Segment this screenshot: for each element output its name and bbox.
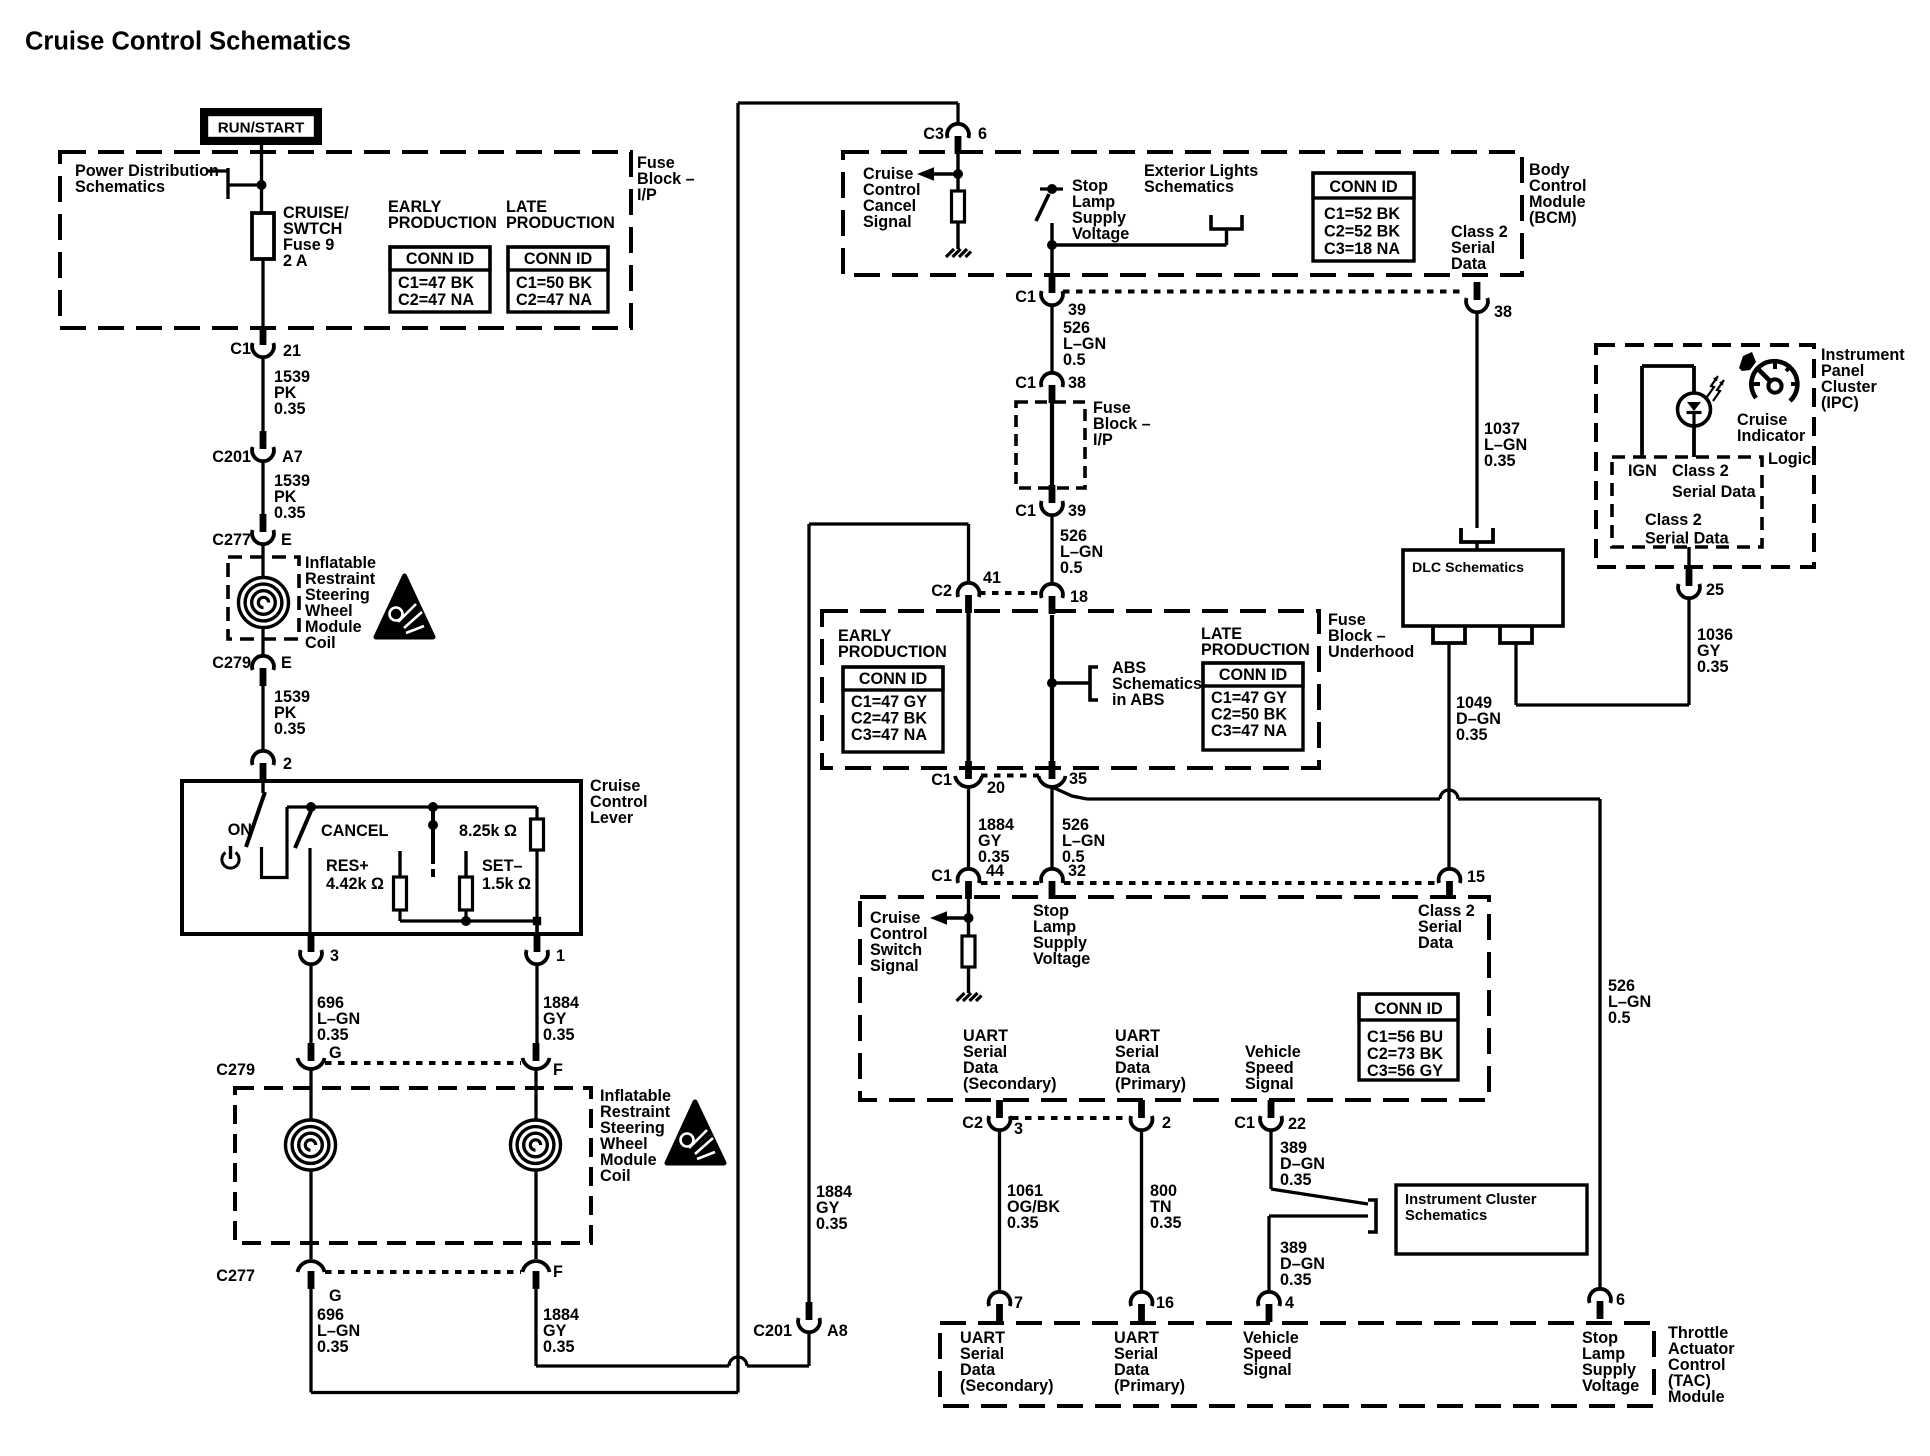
- svg-text:Voltage: Voltage: [1072, 225, 1129, 243]
- svg-text:41: 41: [983, 569, 1001, 587]
- svg-text:C1=50 BK: C1=50 BK: [516, 274, 592, 292]
- svg-text:0.35: 0.35: [816, 1215, 848, 1233]
- svg-text:C201: C201: [753, 1322, 792, 1340]
- svg-text:0.35: 0.35: [543, 1026, 575, 1044]
- svg-text:I/P: I/P: [637, 186, 657, 204]
- svg-text:0.35: 0.35: [1150, 1214, 1182, 1232]
- svg-text:2: 2: [1162, 1114, 1171, 1132]
- svg-text:F: F: [553, 1061, 563, 1079]
- svg-text:Logic: Logic: [1768, 450, 1811, 468]
- svg-text:C1: C1: [931, 771, 952, 789]
- svg-text:C3: C3: [923, 125, 944, 143]
- svg-text:38: 38: [1494, 303, 1512, 321]
- svg-text:16: 16: [1156, 1294, 1174, 1312]
- svg-text:Class 2: Class 2: [1645, 511, 1702, 529]
- svg-text:A7: A7: [282, 448, 303, 466]
- svg-text:C2=47 NA: C2=47 NA: [516, 291, 592, 309]
- svg-text:ON: ON: [228, 821, 252, 839]
- svg-text:4.42k Ω: 4.42k Ω: [326, 875, 384, 893]
- svg-text:2: 2: [283, 755, 292, 773]
- svg-text:G: G: [329, 1044, 342, 1062]
- svg-text:(Secondary): (Secondary): [960, 1377, 1054, 1395]
- svg-text:0.35: 0.35: [274, 400, 306, 418]
- svg-text:0.35: 0.35: [1280, 1171, 1312, 1189]
- svg-text:Data: Data: [1418, 934, 1454, 952]
- svg-text:C279: C279: [216, 1061, 255, 1079]
- svg-text:C277: C277: [216, 1267, 255, 1285]
- svg-text:20: 20: [987, 779, 1005, 797]
- svg-text:C3=18 NA: C3=18 NA: [1324, 240, 1400, 258]
- svg-text:PRODUCTION: PRODUCTION: [388, 214, 497, 232]
- svg-text:7: 7: [1014, 1294, 1023, 1312]
- svg-text:C1: C1: [1015, 502, 1036, 520]
- svg-text:C1=52 BK: C1=52 BK: [1324, 205, 1400, 223]
- svg-text:in ABS: in ABS: [1112, 691, 1165, 709]
- svg-text:C2: C2: [931, 582, 952, 600]
- svg-text:DLC Schematics: DLC Schematics: [1412, 560, 1524, 576]
- svg-text:Signal: Signal: [863, 213, 912, 231]
- svg-text:CANCEL: CANCEL: [321, 822, 389, 840]
- svg-text:Serial Data: Serial Data: [1645, 530, 1730, 548]
- svg-text:C2=73 BK: C2=73 BK: [1367, 1045, 1443, 1063]
- svg-text:0.35: 0.35: [274, 720, 306, 738]
- svg-text:RES+: RES+: [326, 857, 369, 875]
- svg-text:Schematics: Schematics: [75, 178, 165, 196]
- svg-text:18: 18: [1070, 588, 1088, 606]
- svg-text:Lever: Lever: [590, 809, 634, 827]
- svg-text:21: 21: [283, 342, 301, 360]
- svg-text:C3=56 GY: C3=56 GY: [1367, 1062, 1443, 1080]
- svg-text:CONN ID: CONN ID: [406, 250, 475, 268]
- svg-text:4: 4: [1285, 1294, 1294, 1312]
- svg-text:0.35: 0.35: [543, 1338, 575, 1356]
- svg-text:Cruise Control Schematics: Cruise Control Schematics: [25, 28, 351, 56]
- svg-text:25: 25: [1706, 581, 1724, 599]
- svg-text:F: F: [553, 1263, 563, 1281]
- svg-text:C2=47 NA: C2=47 NA: [398, 291, 474, 309]
- svg-text:Module: Module: [1668, 1388, 1725, 1406]
- svg-text:CONN ID: CONN ID: [1329, 178, 1398, 196]
- svg-text:CONN ID: CONN ID: [1374, 1000, 1443, 1018]
- svg-text:C2: C2: [962, 1114, 983, 1132]
- svg-text:C2=47 BK: C2=47 BK: [851, 710, 927, 728]
- svg-text:0.35: 0.35: [317, 1026, 349, 1044]
- svg-text:C201: C201: [212, 448, 251, 466]
- svg-text:C1=56 BU: C1=56 BU: [1367, 1028, 1443, 1046]
- svg-text:0.35: 0.35: [1484, 452, 1516, 470]
- svg-text:3: 3: [330, 947, 339, 965]
- svg-text:0.35: 0.35: [317, 1338, 349, 1356]
- svg-text:3: 3: [1014, 1120, 1023, 1138]
- svg-text:(Primary): (Primary): [1114, 1377, 1185, 1395]
- svg-text:PRODUCTION: PRODUCTION: [838, 643, 947, 661]
- svg-text:Serial Data: Serial Data: [1672, 483, 1757, 501]
- svg-text:6: 6: [978, 125, 987, 143]
- svg-text:0.35: 0.35: [274, 504, 306, 522]
- svg-text:Signal: Signal: [1245, 1075, 1294, 1093]
- svg-text:15: 15: [1467, 868, 1485, 886]
- svg-text:C3=47 NA: C3=47 NA: [1211, 722, 1287, 740]
- svg-text:C1: C1: [1015, 288, 1036, 306]
- svg-text:SET–: SET–: [482, 857, 523, 875]
- svg-text:CONN ID: CONN ID: [1219, 666, 1288, 684]
- svg-text:44: 44: [986, 862, 1004, 880]
- svg-text:1: 1: [556, 947, 565, 965]
- svg-text:0.35: 0.35: [1697, 658, 1729, 676]
- svg-text:Schematics: Schematics: [1144, 178, 1234, 196]
- svg-text:C1=47 BK: C1=47 BK: [398, 274, 474, 292]
- svg-text:RUN/START: RUN/START: [218, 120, 305, 137]
- svg-text:Indicator: Indicator: [1737, 427, 1806, 445]
- svg-text:35: 35: [1069, 770, 1087, 788]
- svg-text:C279: C279: [212, 654, 251, 672]
- svg-text:C2=50 BK: C2=50 BK: [1211, 706, 1287, 724]
- svg-text:0.5: 0.5: [1608, 1009, 1631, 1027]
- svg-text:(BCM): (BCM): [1529, 209, 1577, 227]
- svg-text:A8: A8: [827, 1322, 848, 1340]
- svg-text:Coil: Coil: [305, 634, 336, 652]
- svg-text:39: 39: [1068, 502, 1086, 520]
- svg-text:E: E: [281, 531, 292, 549]
- svg-text:2 A: 2 A: [283, 252, 308, 270]
- svg-text:Signal: Signal: [870, 957, 919, 975]
- svg-text:0.5: 0.5: [1063, 351, 1086, 369]
- svg-text:Schematics: Schematics: [1405, 1208, 1487, 1224]
- svg-text:Voltage: Voltage: [1033, 950, 1090, 968]
- svg-text:32: 32: [1068, 862, 1086, 880]
- svg-text:8.25k Ω: 8.25k Ω: [459, 822, 517, 840]
- svg-text:C1: C1: [1234, 1114, 1255, 1132]
- svg-text:Data: Data: [1451, 255, 1487, 273]
- svg-text:(IPC): (IPC): [1821, 394, 1859, 412]
- svg-text:C1: C1: [1015, 374, 1036, 392]
- svg-text:Class 2: Class 2: [1672, 462, 1729, 480]
- svg-text:Instrument Cluster: Instrument Cluster: [1405, 1192, 1537, 1208]
- svg-text:0.35: 0.35: [1280, 1271, 1312, 1289]
- svg-text:1.5k Ω: 1.5k Ω: [482, 875, 531, 893]
- svg-text:39: 39: [1068, 301, 1086, 319]
- svg-text:38: 38: [1068, 374, 1086, 392]
- svg-text:CONN ID: CONN ID: [524, 250, 593, 268]
- svg-text:E: E: [281, 654, 292, 672]
- svg-text:0.35: 0.35: [1007, 1214, 1039, 1232]
- svg-text:CONN ID: CONN ID: [859, 670, 928, 688]
- svg-text:Underhood: Underhood: [1328, 643, 1414, 661]
- svg-text:PRODUCTION: PRODUCTION: [506, 214, 615, 232]
- svg-text:C2=52 BK: C2=52 BK: [1324, 223, 1400, 241]
- svg-text:C1: C1: [230, 340, 251, 358]
- svg-text:22: 22: [1288, 1115, 1306, 1133]
- svg-text:C1=47 GY: C1=47 GY: [1211, 689, 1287, 707]
- svg-text:G: G: [329, 1287, 342, 1305]
- svg-text:PRODUCTION: PRODUCTION: [1201, 641, 1310, 659]
- svg-text:(Primary): (Primary): [1115, 1075, 1186, 1093]
- svg-text:Voltage: Voltage: [1582, 1377, 1639, 1395]
- svg-text:IGN: IGN: [1628, 462, 1657, 480]
- svg-text:Coil: Coil: [600, 1167, 631, 1185]
- svg-text:I/P: I/P: [1093, 431, 1113, 449]
- svg-text:(Secondary): (Secondary): [963, 1075, 1057, 1093]
- svg-text:6: 6: [1616, 1291, 1625, 1309]
- svg-text:C1=47 GY: C1=47 GY: [851, 693, 927, 711]
- svg-text:C3=47 NA: C3=47 NA: [851, 726, 927, 744]
- svg-text:0.35: 0.35: [1456, 726, 1488, 744]
- svg-text:Signal: Signal: [1243, 1361, 1292, 1379]
- svg-text:C1: C1: [931, 867, 952, 885]
- svg-text:0.5: 0.5: [1060, 559, 1083, 577]
- svg-text:C277: C277: [212, 531, 251, 549]
